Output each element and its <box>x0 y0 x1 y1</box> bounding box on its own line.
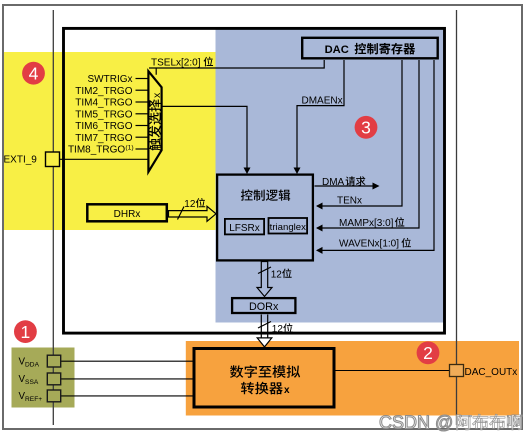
svg-text:TSELx[2:0]: TSELx[2:0] <box>151 58 201 69</box>
svg-text:1: 1 <box>21 322 31 342</box>
svg-text:TENx: TENx <box>337 196 362 207</box>
svg-text:2: 2 <box>423 343 433 363</box>
svg-text:DAC: DAC <box>325 44 349 56</box>
svg-text:12: 12 <box>272 324 284 335</box>
svg-text:DHRx: DHRx <box>114 209 141 220</box>
svg-text:SWTRIGx: SWTRIGx <box>88 74 133 85</box>
svg-text:x: x <box>284 385 290 396</box>
svg-text:DORx: DORx <box>249 301 279 313</box>
svg-text:3: 3 <box>361 118 371 138</box>
svg-text:x: x <box>151 92 163 98</box>
svg-text:EXTI_9: EXTI_9 <box>4 155 38 166</box>
svg-text:CSDN @: CSDN @ <box>379 413 453 433</box>
svg-text:DMA: DMA <box>322 177 345 188</box>
svg-text:4: 4 <box>29 64 39 84</box>
svg-text:(1): (1) <box>125 145 133 152</box>
svg-text:TIM4_TRGO: TIM4_TRGO <box>75 98 132 109</box>
svg-text:LFSRx: LFSRx <box>229 223 260 234</box>
svg-text:TIM5_TRGO: TIM5_TRGO <box>75 109 132 120</box>
svg-text:DMAENx: DMAENx <box>302 96 343 107</box>
svg-text:TIM8_TRGO: TIM8_TRGO <box>68 145 125 156</box>
svg-text:WAVENx[1:0]: WAVENx[1:0] <box>339 239 399 250</box>
svg-text:MAMPx[3:0]: MAMPx[3:0] <box>339 218 394 229</box>
svg-text:DAC_OUTx: DAC_OUTx <box>465 367 518 378</box>
svg-text:TIM7_TRGO: TIM7_TRGO <box>75 133 132 144</box>
svg-text:TIM2_TRGO: TIM2_TRGO <box>75 86 132 97</box>
svg-text:TIM6_TRGO: TIM6_TRGO <box>75 121 132 132</box>
svg-text:12: 12 <box>184 199 196 210</box>
svg-text:trianglex: trianglex <box>270 222 306 233</box>
svg-text:12: 12 <box>271 269 283 280</box>
